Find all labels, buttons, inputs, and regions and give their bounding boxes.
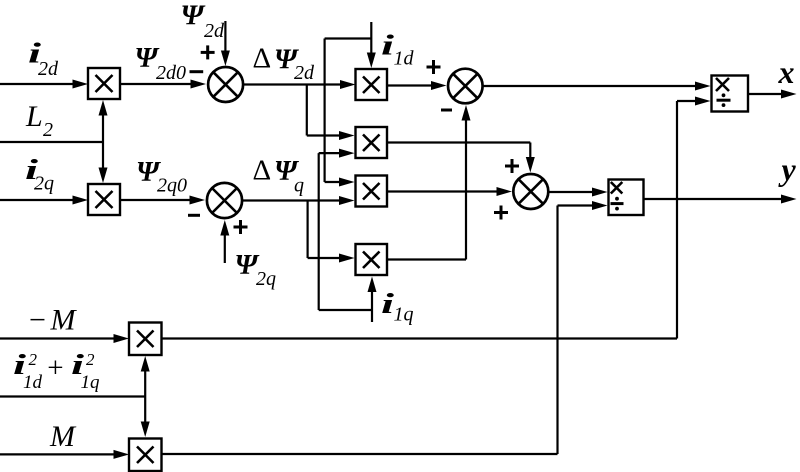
divider D2 xyxy=(609,180,644,216)
wire i_2d input xyxy=(0,80,88,89)
wire L2 xyxy=(0,100,108,183)
svg-text:Ψ: Ψ xyxy=(181,0,206,32)
wire M1b to S0 xyxy=(120,196,205,205)
wire i_2q input xyxy=(0,196,88,205)
svg-text:2d: 2d xyxy=(294,62,315,84)
sign plus at S3 xyxy=(427,60,441,74)
wire branch dPsi_2d down to M3 xyxy=(307,85,355,141)
svg-text:Δ: Δ xyxy=(253,154,272,186)
svg-text:M: M xyxy=(49,420,77,453)
wire Psi_2q up into S0 xyxy=(220,220,229,263)
multiplier M4 xyxy=(356,176,388,207)
sign plus below S0 xyxy=(234,220,248,234)
wire MB1 to D1 lower input xyxy=(162,97,711,339)
wire S2 to D2 xyxy=(548,188,607,197)
svg-text:2q: 2q xyxy=(256,268,276,290)
sign plus above S2 xyxy=(505,159,519,173)
label i1d2 plus i1q2 xyxy=(13,349,100,393)
wire M input xyxy=(0,450,129,459)
svg-text:2d: 2d xyxy=(204,20,225,42)
sign plus above S1 xyxy=(201,45,215,59)
svg-text:2: 2 xyxy=(86,350,95,369)
svg-text:i: i xyxy=(381,30,394,62)
multiplier M3 xyxy=(356,127,388,158)
summing junction S3 xyxy=(448,69,483,104)
svg-text:q: q xyxy=(294,175,304,197)
sign minus below S3 xyxy=(441,109,452,112)
multiplier M2 xyxy=(356,69,388,100)
svg-text:+: + xyxy=(47,352,63,384)
svg-text:2d0: 2d0 xyxy=(156,62,186,84)
sign plus below S2 xyxy=(494,206,508,220)
multiplier M5 xyxy=(356,244,388,275)
label dPsi_q xyxy=(253,154,305,196)
wire M5 to S3 xyxy=(387,105,471,260)
svg-text:1d: 1d xyxy=(23,372,43,393)
svg-text:i: i xyxy=(381,288,394,320)
label i_2d xyxy=(28,38,59,81)
svg-text:−: − xyxy=(29,304,46,337)
svg-text:L: L xyxy=(25,100,43,133)
summing junction S0 xyxy=(207,183,242,218)
svg-text:2: 2 xyxy=(29,350,38,369)
multiplier MB2 xyxy=(129,439,162,472)
wire M4 to S2 xyxy=(387,187,513,196)
multiplier M1b xyxy=(88,184,120,215)
sign minus at S1 xyxy=(190,70,204,73)
svg-text:Δ: Δ xyxy=(253,43,272,75)
sign minus at S0 xyxy=(188,214,200,217)
wire i_1d into M2 and branch to M4 xyxy=(325,22,376,187)
label dPsi_2d xyxy=(253,43,316,84)
label Psi_2d xyxy=(181,0,226,42)
svg-text:2: 2 xyxy=(43,119,53,141)
summing junction S1 xyxy=(208,67,243,102)
wire Psi_2d down into S1 xyxy=(221,21,230,66)
multiplier MB1 xyxy=(129,323,162,356)
svg-text:1q: 1q xyxy=(394,304,414,326)
label Psi_2q0 xyxy=(136,156,187,197)
wire S0 to M4 xyxy=(242,196,354,205)
wire S1 to M2 xyxy=(243,80,355,89)
label i_1q xyxy=(381,288,414,326)
svg-text:2d: 2d xyxy=(38,58,59,80)
multiplier M1 xyxy=(88,68,120,99)
svg-text:M: M xyxy=(50,304,78,337)
svg-text:1q: 1q xyxy=(81,372,101,393)
wire i squared sum xyxy=(0,356,150,437)
svg-text:1d: 1d xyxy=(394,48,415,70)
wire M2 to S3 xyxy=(387,81,447,90)
label i_1d xyxy=(381,30,415,70)
wire M1 to S1 xyxy=(120,80,206,89)
wire S3 to D1 xyxy=(483,82,711,91)
wire i_1q into M5 xyxy=(368,277,377,323)
wire D2 to y output xyxy=(644,195,797,204)
wire MB2 to D2 lower input xyxy=(162,201,608,454)
label Psi_2d0 xyxy=(135,42,187,84)
wire D1 to x output xyxy=(748,90,797,99)
divider D1 xyxy=(712,76,749,112)
wire M3 to S2 xyxy=(387,143,535,173)
label Psi_2q xyxy=(235,249,277,290)
svg-text:2q0: 2q0 xyxy=(157,175,187,197)
wire i_1q up to M3 input xyxy=(319,149,372,310)
label i_2q xyxy=(25,154,54,195)
wire branch dPsi_q down to M5 xyxy=(308,201,355,263)
summing junction S2 xyxy=(513,174,548,209)
label L2 xyxy=(25,100,53,141)
svg-text:x: x xyxy=(778,54,795,90)
svg-text:2q: 2q xyxy=(34,173,54,195)
wire minus M input xyxy=(0,334,129,343)
